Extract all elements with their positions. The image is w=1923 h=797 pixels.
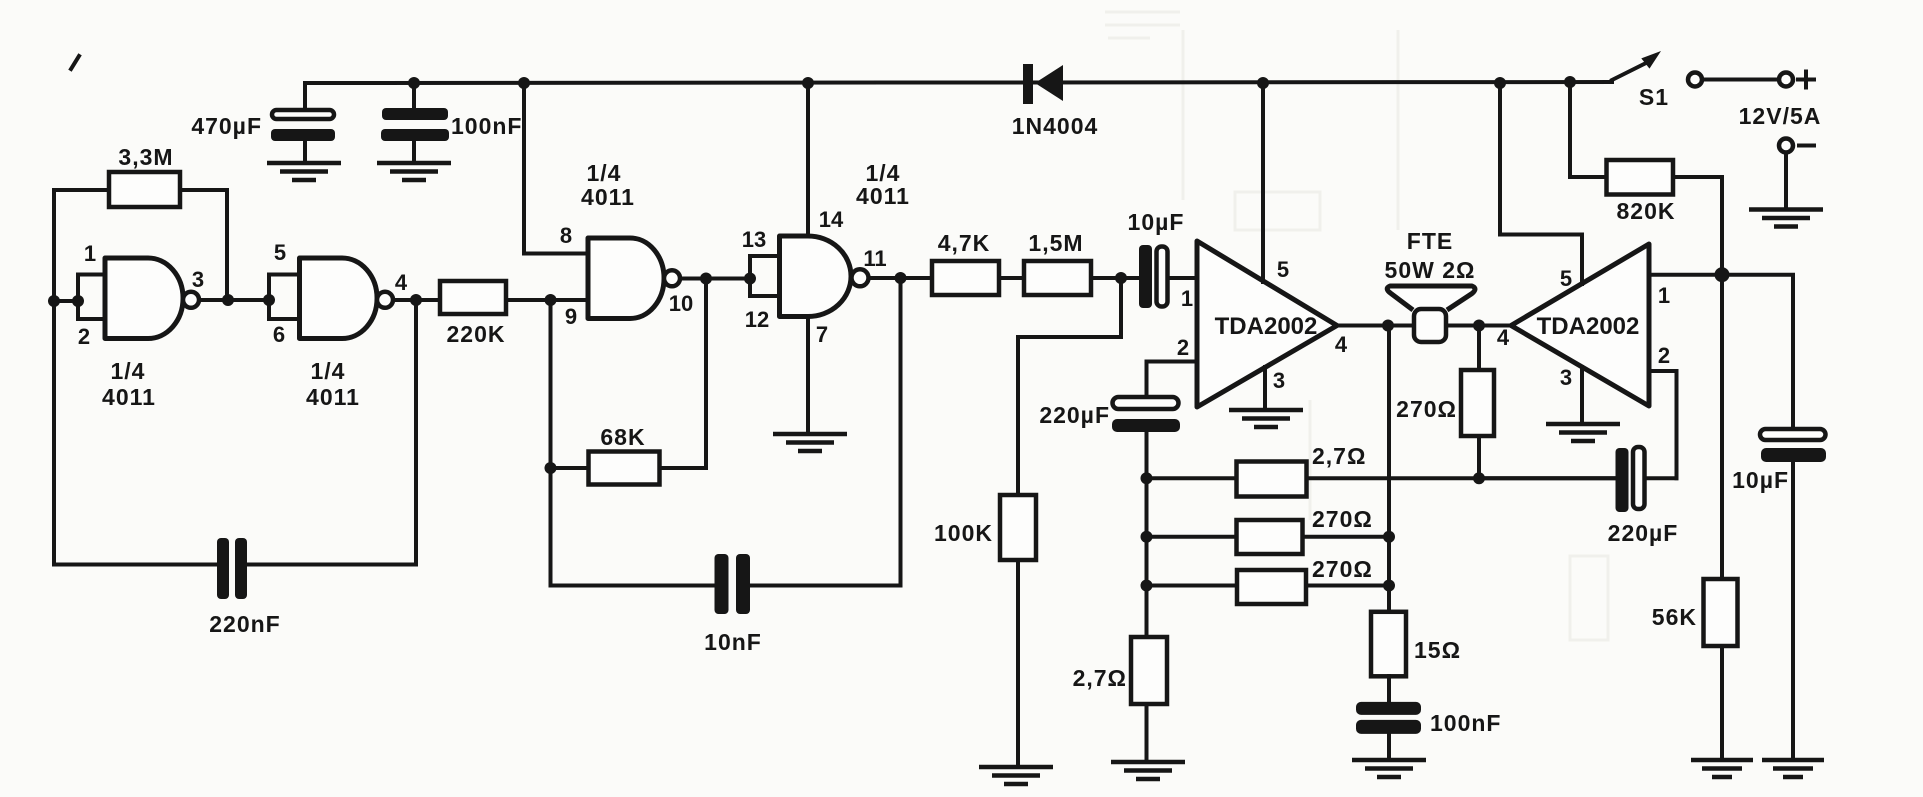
gate U1c output bubble [664,270,680,286]
svg-text:1: 1 [84,241,96,266]
resistor R2 220K body [440,281,506,314]
speaker FTE horn [1387,286,1475,310]
wire 100nF to ground [1387,734,1391,760]
terminal minus circle [1779,139,1793,153]
capacitor C7 100nF upper plate [1356,702,1421,715]
terminal S1 right circle [1688,73,1702,87]
resistor R6 100K body [1000,495,1036,560]
wire junction to 100K [1018,278,1121,495]
resistor R7 2,7ohm body [1237,462,1307,497]
wire gate1 tied-input bracket [78,275,105,320]
wire row3 left lead [1147,584,1238,588]
node row3 left [1141,580,1153,592]
resistor R5 1,5M body [1024,261,1091,295]
wire gate1 output to gate2 [199,298,269,302]
node rail-pin8 [518,77,530,89]
svg-text:15Ω: 15Ω [1414,637,1461,663]
wire rail to gate3 pin8 [524,83,588,254]
node gate2 output junction [410,294,422,306]
svg-text:3: 3 [192,267,204,292]
wire 15ohm to 100nF [1387,676,1391,704]
capacitor C7 100nF lower plate [1356,720,1421,734]
svg-text:1: 1 [1181,286,1193,311]
capacitor C9 10uF negative plate [1761,448,1826,462]
svg-text:FTE: FTE [1407,228,1453,254]
svg-text:100K: 100K [934,520,993,546]
wire row1 right lead to 220uF2 [1307,476,1618,480]
svg-text:TDA2002: TDA2002 [1215,313,1318,340]
svg-text:220nF: 220nF [209,611,280,637]
svg-text:3: 3 [1560,365,1572,390]
node speaker left junction [1382,320,1394,332]
svg-text:4011: 4011 [306,384,360,410]
capacitor C2 100nF upper plate [382,108,448,120]
svg-text:50W 2Ω: 50W 2Ω [1385,257,1476,283]
node gate2 input bracket [263,294,275,306]
gate U1c NAND body [588,238,664,319]
svg-text:4: 4 [1497,325,1510,350]
wire gate2 tied-input bracket [269,275,300,320]
capacitor C3 220nF right plate [235,538,247,599]
wire TDA1 pin2 stub [1147,362,1198,399]
capacitor C4 10nF right plate [736,554,750,614]
wire gate2 output to 220K [393,298,440,302]
svg-text:12: 12 [745,307,769,332]
node 1,5M output junction [1115,272,1127,284]
ground under 2,7ohm [1111,762,1185,779]
label plus sign [1798,72,1814,88]
svg-text:220K: 220K [447,321,506,347]
wire TDA2 pin5 to rail [1500,83,1582,284]
svg-text:4: 4 [395,270,408,295]
capacitor C3 220nF left plate [217,538,229,599]
resistor R11 15ohm body [1371,612,1406,677]
resistor R8 270ohm body [1237,520,1303,554]
resistor R13 820K leads [1570,83,1722,275]
node rail-100nF [408,77,420,89]
node rail S1 junction [1564,76,1576,88]
node row1 left [1141,472,1153,484]
svg-text:11: 11 [863,246,886,271]
switch S1 arrowhead [1641,51,1661,69]
wire 220uF to row1 [1145,432,1149,637]
resistor R3 68K leads [551,279,707,469]
node row3 right [1383,580,1395,592]
ground under 100nF bottom [1352,760,1426,777]
ground under 56K [1691,760,1753,777]
wire gate4 pin14 to rail [806,83,810,236]
ground under pin7 [773,434,847,451]
svg-text:10µF: 10µF [1128,209,1185,235]
svg-text:220µF: 220µF [1039,402,1110,428]
capacitor C1 470uF positive plate [272,110,334,119]
wire 4,7K to 1,5M [999,276,1024,280]
svg-text:820K: 820K [1617,198,1676,224]
wire TDA1 pin3 to ground [1263,367,1267,410]
wire pin1 junction to 10uF right [1722,275,1793,430]
wire 220uF2 right lead [1645,476,1677,480]
wire 10nF loop right vertical [899,278,903,586]
svg-text:3: 3 [1273,368,1285,393]
svg-text:2,7Ω: 2,7Ω [1312,443,1366,469]
node rail TDA1 pin5 [1257,77,1269,89]
node rail-pin14 [802,77,814,89]
wire TDA2 pin1 [1649,273,1722,277]
capacitor C2 100nF top lead [412,83,416,110]
node gate3 output junction [700,273,712,285]
svg-text:6: 6 [273,322,285,347]
capacitor C8 220uF positive plate [1633,447,1645,509]
scan artifact mark [71,56,79,69]
ground under 470uF [267,163,341,180]
capacitor C5 10uF positive plate [1157,247,1168,307]
svg-text:1,5M: 1,5M [1028,230,1083,256]
node row2 left [1141,531,1153,543]
wire 10uF to TDA1 pin1 [1168,276,1198,280]
node gate4 input bracket [744,273,756,285]
svg-text:4011: 4011 [102,384,156,410]
svg-text:1N4004: 1N4004 [1012,113,1099,139]
capacitor C9 10uF positive plate [1760,429,1826,440]
svg-text:5: 5 [274,240,286,265]
resistor R9 270ohm body [1237,570,1306,604]
svg-text:1/4: 1/4 [587,160,622,186]
wire gate4 tied-input bracket [750,256,780,296]
svg-text:270Ω: 270Ω [1396,396,1457,422]
diode D1 1N4004 cathode bar [1023,64,1033,104]
node pin9 junction [545,294,557,306]
svg-text:10µF: 10µF [1732,467,1789,493]
resistor R12 270ohm vertical body [1461,370,1494,436]
wire gate1 input [54,299,78,303]
svg-text:7: 7 [816,322,828,347]
svg-text:5: 5 [1560,266,1572,291]
node 68K left junction [545,462,557,474]
wire 220nF loop bottom right [246,563,416,567]
wire 2,7ohm vertical to ground [1145,704,1149,762]
wire 220uF2 left lead [1479,476,1617,480]
resistor R14 56K body [1704,579,1738,646]
wire 270ohm vertical bottom lead [1477,436,1481,478]
wire 100K to ground [1016,560,1020,767]
svg-text:10nF: 10nF [704,629,762,655]
gate U1d NAND body [780,236,852,317]
svg-text:2: 2 [78,324,90,349]
capacitor C1 470uF bottom lead [303,141,307,163]
speaker FTE coil box [1414,309,1446,342]
svg-text:100nF: 100nF [1430,710,1501,736]
wire 1,5M to 10uF [1091,276,1141,280]
ground under minus terminal [1749,210,1823,227]
svg-text:12V/5A: 12V/5A [1739,103,1822,129]
svg-text:5: 5 [1277,257,1289,282]
wire feedback left vertical [52,190,56,301]
wire feedback right vertical [225,190,229,300]
wire TDA2 pin3 to ground [1580,367,1584,424]
capacitor C2 100nF lower plate [381,129,449,141]
node row2 right [1383,531,1395,543]
node gate1 input bracket [72,295,84,307]
gate U1a output bubble [183,292,199,308]
ground under TDA2 pin3 [1546,424,1620,441]
wire 10nF loop bottom right [750,584,901,588]
svg-text:1/4: 1/4 [311,358,346,384]
resistor R3 68K body [589,452,660,485]
wire row2 right lead [1303,535,1390,539]
wire 220nF loop left vertical [52,301,56,565]
wire TDA2 pin2 to 220uF2 [1649,371,1677,478]
node speaker right junction [1473,320,1485,332]
wire gate4 output to 4,7K [869,276,933,280]
svg-text:4011: 4011 [581,184,635,210]
wire 270ohm vertical top lead [1477,326,1481,371]
node rail TDA2 pin5 [1494,77,1506,89]
gate U1d output bubble [852,269,869,286]
node TDA2 pin1 junction [1715,267,1730,282]
terminal plus circle [1779,73,1793,87]
svg-text:9: 9 [565,304,577,329]
switch S1 blade [1612,63,1646,80]
ghost bleed-through marks (decorative, faint) [1105,12,1608,640]
wire speaker column vertical [1387,326,1391,613]
wire 220K to gate3 pin9 [506,298,588,302]
svg-text:4011: 4011 [856,183,910,209]
wire pin9 drop to 10nF loop [549,300,553,586]
svg-text:2,7Ω: 2,7Ω [1073,665,1127,691]
wire 220nF loop right vertical [414,300,418,565]
ground under 100K [979,767,1053,784]
resistor R13 820K body [1607,160,1674,195]
node row1 right junction [1473,472,1485,484]
svg-text:68K: 68K [600,424,645,450]
wire gate4 pin7 to ground [806,316,810,434]
svg-text:270Ω: 270Ω [1312,556,1373,582]
gate U1b output bubble [377,292,393,308]
svg-text:1: 1 [1658,283,1670,308]
wire 56K to ground [1720,646,1724,760]
svg-text:1/4: 1/4 [111,358,146,384]
svg-text:14: 14 [819,207,844,232]
svg-text:100nF: 100nF [451,113,522,139]
wire gate3 output to gate4 [680,277,750,281]
node gate4 output junction [895,272,907,284]
capacitor C8 220uF negative plate [1616,448,1629,512]
capacitor C4 10nF left plate [715,554,729,614]
gate U1b NAND body [300,258,378,339]
wire minus terminal to ground [1784,153,1788,210]
wire 220nF loop bottom left [54,563,219,567]
svg-text:8: 8 [560,223,572,248]
ground under TDA1 pin3 [1229,410,1303,427]
wire 10uF right to ground [1791,462,1795,760]
resistor R1 3,3M body [109,172,180,207]
node feedback-output junction [222,294,234,306]
capacitor C6 220uF positive plate [1113,397,1179,409]
label minus sign [1799,144,1814,148]
svg-text:TDA2002: TDA2002 [1537,313,1640,340]
svg-text:10: 10 [669,291,693,316]
wire TDA1 pin5 to rail [1261,83,1265,282]
node gate1 input left [48,295,60,307]
resistor R4 4,7K body [932,261,999,295]
op-amp U3 TDA2002 body [1511,244,1649,406]
svg-text:4: 4 [1335,332,1348,357]
svg-text:56K: 56K [1652,604,1697,630]
resistor R10 2,7ohm vertical body [1131,637,1167,704]
wire TDA1 output to TDA2 [1337,324,1511,328]
ground under 10uF right [1762,760,1824,777]
svg-text:220µF: 220µF [1608,520,1679,546]
resistor R1 3,3M leads [54,188,227,192]
wire terminal link [1702,78,1779,82]
capacitor C1 470uF top lead [303,83,307,111]
capacitor C2 100nF bottom lead [412,141,416,163]
gate U1a NAND body [105,258,183,339]
svg-text:S1: S1 [1639,84,1669,110]
ground under 100nF [377,163,451,180]
wire pin1 junction down to 56K [1720,275,1724,579]
capacitor C5 10uF negative plate [1139,245,1152,308]
wire row2 left lead [1147,535,1237,539]
svg-text:3,3M: 3,3M [118,144,173,170]
capacitor C6 220uF negative plate [1112,419,1180,432]
op-amp U2 TDA2002 body [1197,241,1337,407]
diode D1 1N4004 body [1035,65,1063,101]
svg-text:13: 13 [742,227,766,252]
svg-text:270Ω: 270Ω [1312,506,1373,532]
svg-text:470µF: 470µF [191,113,262,139]
wire 10nF loop bottom left [551,584,717,588]
wire row3 right lead [1306,584,1389,588]
wire row1 left lead [1147,476,1237,480]
wire V+ top rail [305,82,1612,83]
capacitor C1 470uF negative plate [271,129,335,141]
svg-text:2: 2 [1177,335,1189,360]
svg-text:2: 2 [1658,343,1670,368]
svg-text:4,7K: 4,7K [938,230,991,256]
